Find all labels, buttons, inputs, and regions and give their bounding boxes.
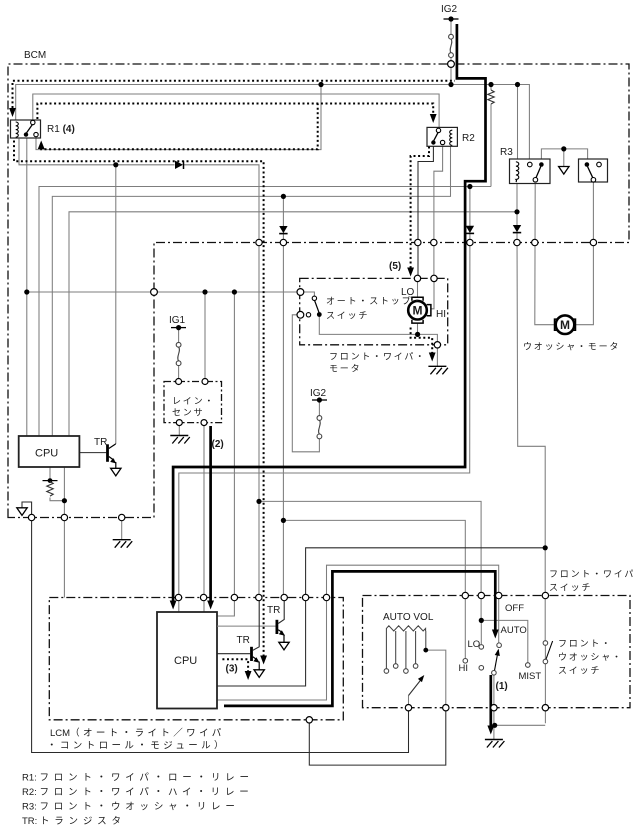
svg-text:ウオッシャ・: ウオッシャ・ [558, 652, 623, 662]
wire MIST branch [481, 620, 528, 662]
svg-text:センサ: センサ [172, 408, 204, 418]
wiper motor box pins top edge LO HI [414, 275, 420, 281]
svg-text:AUTO: AUTO [501, 625, 527, 636]
wiper motor box pin bottom ground [434, 342, 440, 348]
flow arrowheads [9, 108, 16, 117]
svg-text:TR: TR [94, 437, 107, 448]
svg-text:(5): (5) [389, 261, 401, 272]
svg-text:IG2: IG2 [310, 388, 327, 399]
wire dotA to LO/MIST feed [259, 501, 481, 620]
BCM pin on notch edge [151, 289, 158, 296]
BCM pin IG2 input [448, 61, 455, 68]
wire auto stop output [319, 315, 437, 367]
svg-text:フロント・: フロント・ [558, 639, 612, 649]
junction bus to rain sensor [202, 289, 207, 294]
svg-text:R1: フロント・ワイパ・ロー・リレー: R1: フロント・ワイパ・ロー・リレー [22, 773, 254, 784]
LCM module border [49, 598, 343, 720]
wire TR2 base (black) [217, 653, 250, 655]
svg-text:MIST: MIST [519, 671, 542, 682]
fuse IG2 [444, 16, 459, 57]
wire resistor branch x=491 [490, 85, 492, 91]
svg-text:LCM（オート・ライト／ワイパ: LCM（オート・ライト／ワイパ [50, 727, 225, 739]
wiper motor M [408, 297, 431, 323]
junction IG2 bus to R1 NC wire [318, 82, 323, 87]
svg-text:スイッチ: スイッチ [549, 583, 592, 593]
Japanese labels [172, 296, 634, 676]
diode x=517 [513, 225, 521, 233]
resistor below CPU1 [43, 478, 58, 496]
wiper switch selector arm [463, 643, 530, 675]
svg-text:R3: R3 [500, 147, 513, 158]
svg-text:HI: HI [459, 663, 469, 674]
svg-text:R3: フロント・ウオッシャ・リレー: R3: フロント・ウオッシャ・リレー [22, 802, 240, 813]
svg-text:IG1: IG1 [169, 315, 186, 326]
AUTO VOL variable resistor [386, 626, 425, 669]
svg-text:BCM: BCM [24, 50, 46, 61]
svg-text:AUTO VOL: AUTO VOL [383, 612, 434, 623]
wire R3 coil top feed [517, 85, 519, 163]
diode on y=164.8 line [175, 161, 184, 169]
wire R2 LO output (black) [418, 145, 433, 279]
ground BCM pin [113, 540, 133, 548]
washer relay contact box [579, 159, 608, 182]
flow dotted (3) CPU2 out [222, 659, 248, 671]
wire wiper common to ground [493, 675, 495, 739]
wire motor bottom [417, 323, 419, 334]
svg-text:モータ: モータ [329, 364, 361, 374]
wire CPU2 to AUTO contact [217, 565, 499, 700]
wire rain sensor ground [178, 423, 180, 435]
svg-text:R2: R2 [462, 133, 475, 144]
svg-text:LO: LO [468, 639, 481, 650]
svg-text:ウオッシャ・モータ: ウオッシャ・モータ [523, 342, 620, 352]
fuse IG2 second [312, 397, 327, 438]
wire CPU2 to washer sense y=547.8 (black) [217, 548, 545, 686]
wiper motor box border [300, 278, 448, 344]
ground wiper motor [428, 366, 448, 374]
wire IG2 feed down to BCM [450, 19, 452, 85]
svg-text:CPU: CPU [35, 448, 58, 460]
junction bus left end [24, 289, 29, 294]
wire B+ triangle link to washer circuit (black) [22, 502, 409, 753]
wire TR1top base (black) [79, 452, 106, 454]
svg-text:フロント・ワイパ・: フロント・ワイパ・ [549, 569, 634, 579]
relay R2 [427, 127, 457, 146]
rain sensor pins [176, 379, 182, 385]
wire bus to rain sensor [204, 292, 206, 382]
junction on IG2 bus at fuse output [448, 82, 453, 87]
svg-text:HI: HI [436, 309, 446, 320]
wire resistor R below CPU1 [50, 467, 64, 501]
wire R1 common to CPU1 [26, 137, 28, 437]
CPU box 1 [19, 436, 80, 467]
auto stop switch [306, 296, 321, 317]
svg-text:(2): (2) [212, 439, 224, 450]
LCM pin bottom edge [306, 717, 312, 723]
relay R3 [510, 159, 551, 184]
junction R3 coil return [514, 209, 519, 214]
wiper motor box pins left edge [297, 289, 304, 296]
junction resistor to CPU1 wire [62, 498, 67, 503]
flow dotted R1 coil out down to TR2 (3) [14, 141, 264, 656]
wire washer switch chain [544, 646, 546, 724]
junction IG2 bus to R3 coil [515, 82, 520, 87]
wire R3 coil return y=211.8 [69, 184, 517, 437]
current flow path (1) thick line CPU2 to wiper switch [224, 571, 495, 706]
svg-text:オート・ストップ・: オート・ストップ・ [326, 296, 423, 306]
washer switch [543, 641, 552, 664]
fuse IG1 [171, 325, 186, 366]
wire TR collector branch x=115.8 [115, 165, 117, 444]
wire LCM pin to AUTO VOL return (black) [309, 708, 446, 765]
wire R2 coil return diode branch x=283.4 [282, 196, 284, 597]
LCM pins top edge [175, 594, 181, 600]
wire washer sw lower to wiper common ground [495, 724, 546, 726]
svg-text:IG2: IG2 [441, 4, 458, 15]
wire CPU1 bottom to LCM pin [63, 467, 65, 598]
B+ supply triangle right [559, 167, 569, 175]
flow dotted R1 contact in [41, 104, 318, 150]
wire dotB to HI contact [283, 520, 465, 658]
svg-text:レイン・: レイン・ [172, 396, 215, 406]
wire washer relay box2 output to washer motor [575, 182, 593, 325]
wire motor LO terminal [417, 278, 419, 297]
wire motor HI terminal [431, 278, 434, 308]
flow dotted inner loop to R2 [37, 104, 433, 120]
transistor TR at CPU1 [108, 444, 122, 476]
junction IG2 bus to resistor [488, 82, 493, 87]
resistor x=491 [488, 90, 494, 104]
flow dotted (5) motor out to ground [411, 328, 433, 353]
wire BCM pin to ground x=121.7 [121, 518, 123, 540]
node A TR2 collector branch [256, 499, 261, 504]
wire AUTO VOL wiper arm out [408, 696, 410, 708]
B+ triangle at CPU1 [17, 508, 27, 516]
svg-text:CPU: CPU [174, 655, 197, 667]
svg-text:R2: フロント・ワイパ・ハイ・リレー: R2: フロント・ワイパ・ハイ・リレー [22, 787, 254, 798]
current flow path (2) IG2 thick line [173, 24, 485, 601]
wire R2 HI output [434, 145, 443, 279]
junction diode line to TR collector [113, 162, 118, 167]
wiper switch box pins top edge [462, 592, 468, 598]
flow dotted outer loop top [13, 81, 456, 108]
wire resistor to y=186.5 [490, 104, 492, 187]
flow dotted (5) R2 out to motor [411, 147, 429, 268]
wire rain sensor signal to CPU2 [203, 423, 205, 612]
wire R1 NC contact to IG2 bus [36, 85, 321, 150]
junction washer relay supply node [561, 146, 566, 151]
svg-text:・コントロール・モジュール）: ・コントロール・モジュール） [47, 740, 227, 752]
AUTO VOL wiper arm [409, 679, 422, 696]
svg-text:M: M [560, 318, 570, 332]
wire IG1 to rain sensor [178, 328, 180, 382]
current flow path (2) rain sensor thick line [209, 426, 212, 601]
diode x=283.4 [279, 226, 287, 234]
svg-text:フロント・ワイパ・: フロント・ワイパ・ [329, 352, 426, 362]
junction y186 line to diode branch [467, 184, 472, 189]
junction R2 coil return to diode branch [281, 194, 286, 199]
svg-text:スイッチ: スイッチ [326, 311, 369, 321]
wire R3 coil diode branch to washer switch [517, 212, 545, 643]
junction LO/MIST branch [479, 618, 484, 623]
svg-text:TR: トランジスタ: TR: トランジスタ [22, 816, 126, 827]
svg-text:TR: TR [237, 635, 250, 646]
wire R3 switch common up and across to washer relay contact [541, 149, 587, 162]
BCM pins bottom-left edge [28, 514, 34, 520]
node B TR1 collector branch [281, 518, 286, 523]
diode x=469.9 [466, 226, 474, 234]
wire IG2 bus y=84.5 [16, 85, 530, 165]
ground wiper switch [485, 740, 505, 748]
transistor TR upper in LCM [217, 598, 289, 650]
BCM module border [8, 64, 629, 518]
ground rain sensor [170, 436, 190, 444]
wire R3 output to washer motor [535, 182, 555, 325]
svg-text:(1): (1) [496, 681, 508, 692]
front wiper switch box border [363, 596, 631, 708]
wire y=186.5 diode line to CPU2 [39, 187, 491, 437]
BCM pins on lower-right edge [256, 239, 262, 245]
svg-text:TR: TR [267, 605, 280, 616]
wire IG2-2 to auto stop switch [292, 315, 319, 452]
relay R1 [11, 120, 41, 138]
junction bus to CPU2 [232, 289, 237, 294]
svg-text:OFF: OFF [505, 603, 524, 614]
svg-text:R1 (4): R1 (4) [47, 124, 75, 135]
wire R1 coil bottom diode line y=164.8 [19, 139, 259, 598]
transistor TR lower in LCM [252, 598, 265, 678]
junction wiper motor common [415, 332, 420, 337]
junction washer sense line [543, 545, 548, 550]
wire AUTO VOL tap5 out [426, 650, 446, 708]
CPU box 2 [157, 612, 217, 709]
wire bus to CPU2 input [217, 292, 234, 616]
wire left bus y=292 [27, 291, 301, 293]
wire auto stop common contact feed [300, 292, 314, 296]
svg-text:(3): (3) [226, 664, 238, 675]
wire B+ triangle stub right box [563, 149, 565, 166]
wire LO contact drop [480, 620, 482, 644]
current flow path (1) ground arrow [489, 675, 492, 726]
washer motor M [555, 315, 576, 334]
wiper switch box pins bottom edge [405, 705, 411, 711]
rain sensor box border [164, 382, 222, 423]
junction switch ground node [492, 723, 497, 728]
wire R1 top contact to R2 top contact y=94 [33, 94, 439, 128]
svg-text:スイッチ: スイッチ [558, 666, 601, 676]
wire R2 coil return y=196.4 [52, 146, 450, 436]
wire diode branch x=469.9 to CPU2 input [179, 187, 470, 613]
